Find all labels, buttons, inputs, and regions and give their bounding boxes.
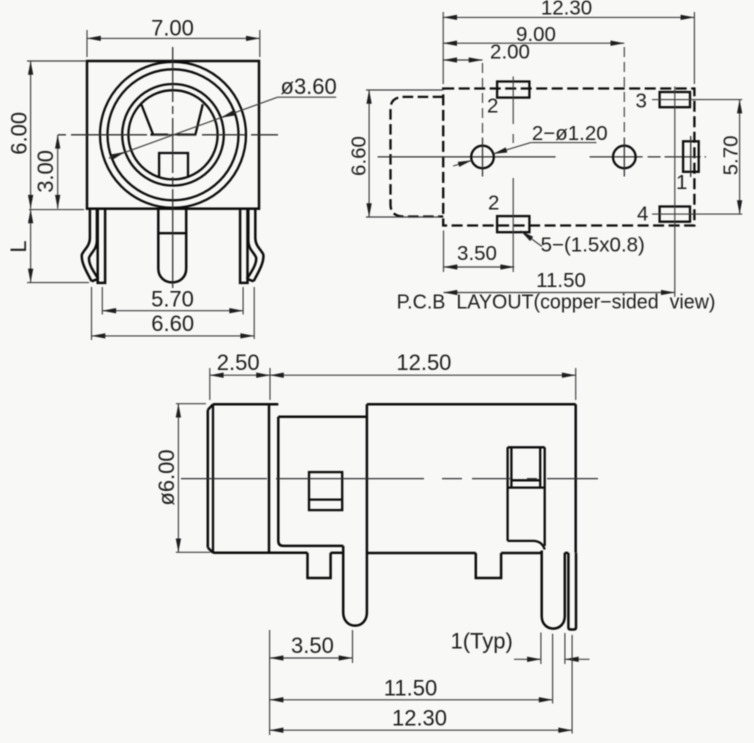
jack body square outline xyxy=(87,61,259,209)
dimension 1(Typ) xyxy=(540,633,542,665)
svg-text:2.00: 2.00 xyxy=(490,41,530,64)
svg-text:1: 1 xyxy=(676,171,687,194)
dimension 5.70 (pcb) xyxy=(739,100,741,215)
pads 3/4 vertical centerline xyxy=(674,87,676,298)
side view centerline xyxy=(181,478,598,480)
svg-text:7.00: 7.00 xyxy=(151,16,194,41)
svg-text:11.50: 11.50 xyxy=(536,269,586,292)
pad 3 xyxy=(660,92,690,107)
left pin spring tip xyxy=(92,279,99,282)
svg-text:12.30: 12.30 xyxy=(541,0,592,20)
svg-text:12.30: 12.30 xyxy=(392,705,447,730)
svg-text:6.60: 6.60 xyxy=(348,136,371,176)
body top edge right section xyxy=(367,403,576,406)
dimension 3.00 xyxy=(57,135,59,209)
dimension 2.50 xyxy=(209,368,211,400)
dimension 5.70 xyxy=(101,287,103,315)
svg-text:1(Typ): 1(Typ) xyxy=(451,629,513,654)
hole outer circle xyxy=(122,84,224,186)
hole 2-diam1.20 right xyxy=(613,146,636,169)
right pin spring tip xyxy=(247,279,254,282)
svg-text:2: 2 xyxy=(487,95,498,118)
svg-text:3.50: 3.50 xyxy=(457,242,497,265)
dimension 12.30 (pcb) xyxy=(442,12,444,84)
svg-text:3.00: 3.00 xyxy=(33,150,58,193)
left U solder pin xyxy=(343,546,367,626)
barrel chamfer bottom xyxy=(208,548,213,553)
left small mount pin xyxy=(308,553,331,578)
contact tab bottom edge right segment xyxy=(177,133,196,135)
dimension 11.50 (side) xyxy=(552,634,554,704)
dimension 11.50 (pcb) xyxy=(444,292,675,294)
svg-text:P.C.B LAYOUT(copper−sided vi: P.C.B LAYOUT(copper−sided view) xyxy=(397,291,716,313)
body bottom edge segments xyxy=(213,552,308,555)
dimension 6.60 (front) xyxy=(91,287,93,340)
dimension 3.50 (pcb) xyxy=(443,231,445,273)
svg-text:6.00: 6.00 xyxy=(7,112,32,155)
dimension 12.30 (side) xyxy=(571,635,573,734)
contact tab seen in hole: left slant xyxy=(141,105,153,135)
dimension 3.50 (side) xyxy=(269,630,271,735)
svg-text:3: 3 xyxy=(636,89,647,112)
rear contact (side view) xyxy=(506,447,508,541)
svg-text:5.70: 5.70 xyxy=(720,135,743,175)
dimension L xyxy=(29,209,84,211)
right U solder pin xyxy=(542,551,565,629)
svg-text:2: 2 xyxy=(488,192,499,215)
svg-text:2−ø1.20: 2−ø1.20 xyxy=(532,122,608,145)
left pin spring outer edge xyxy=(82,209,92,282)
body right edge xyxy=(574,404,577,552)
rear contact bottom fillet xyxy=(508,541,545,550)
barrel chamfer top xyxy=(208,404,213,410)
svg-text:3.50: 3.50 xyxy=(291,633,334,658)
dimension 6.60 (pcb) xyxy=(366,89,443,91)
right pin spring outer edge xyxy=(254,209,264,282)
svg-text:6.60: 6.60 xyxy=(151,311,194,336)
dimension 6.00 xyxy=(27,60,86,62)
svg-text:11.50: 11.50 xyxy=(384,676,437,701)
pad 2 bottom xyxy=(497,216,529,232)
vertical centerline front view xyxy=(172,47,174,288)
barrel outer circle xyxy=(100,62,246,208)
hidden barrel outline (dashed, rounded left) xyxy=(391,97,444,217)
center pin (front view) xyxy=(158,209,186,283)
pad 4 xyxy=(660,207,690,222)
left pin spring inner edge xyxy=(89,209,98,279)
dimension 9.00 xyxy=(443,42,624,44)
pad 1 xyxy=(683,141,699,172)
recess top edge xyxy=(278,416,367,419)
dimension 12.50 xyxy=(575,368,577,400)
svg-text:12.50: 12.50 xyxy=(396,350,451,375)
rectangular window in hole xyxy=(159,153,188,178)
svg-text:5−(1.5x0.8): 5−(1.5x0.8) xyxy=(541,234,645,257)
dimension 2.00 xyxy=(443,59,482,61)
barrel right edge xyxy=(268,404,271,553)
pad 2 top xyxy=(497,82,529,98)
right pin spring inner edge xyxy=(247,209,256,279)
barrel inner ring circle xyxy=(108,69,239,200)
right small mount pin xyxy=(476,553,501,578)
barrel top edge xyxy=(213,403,278,406)
center pin crossbar xyxy=(158,232,186,234)
barrel inner left edge xyxy=(212,404,214,553)
right pin straight strip xyxy=(240,209,247,283)
thin rear pin xyxy=(568,553,576,630)
dimension diam 6.00 xyxy=(176,403,206,405)
front contact window (side view) xyxy=(309,472,342,510)
hole inner circle (diam 3.60) xyxy=(128,90,217,179)
svg-text:2.50: 2.50 xyxy=(217,350,260,375)
svg-text:5.70: 5.70 xyxy=(151,287,194,312)
horizontal centerline pcb view xyxy=(378,156,706,158)
dimension 7.00 xyxy=(86,30,88,57)
body front face with fillet to flange xyxy=(278,417,343,546)
contact tab seen in hole: right slant xyxy=(195,104,202,134)
hole 2-diam1.20 left xyxy=(471,146,494,169)
left pin straight strip xyxy=(98,209,105,283)
contact tab bottom edge left segment xyxy=(151,133,169,135)
svg-text:L: L xyxy=(6,240,31,252)
interior vertical / left U-pin right edge xyxy=(366,404,369,612)
horizontal centerline front view xyxy=(58,134,278,136)
svg-text:4: 4 xyxy=(637,203,648,226)
barrel outer left edge xyxy=(207,410,210,548)
leader diam 3.60 xyxy=(109,97,336,158)
hidden body outline (dashed) xyxy=(443,89,694,226)
svg-text:ø6.00: ø6.00 xyxy=(154,449,179,505)
svg-text:ø3.60: ø3.60 xyxy=(281,74,337,99)
